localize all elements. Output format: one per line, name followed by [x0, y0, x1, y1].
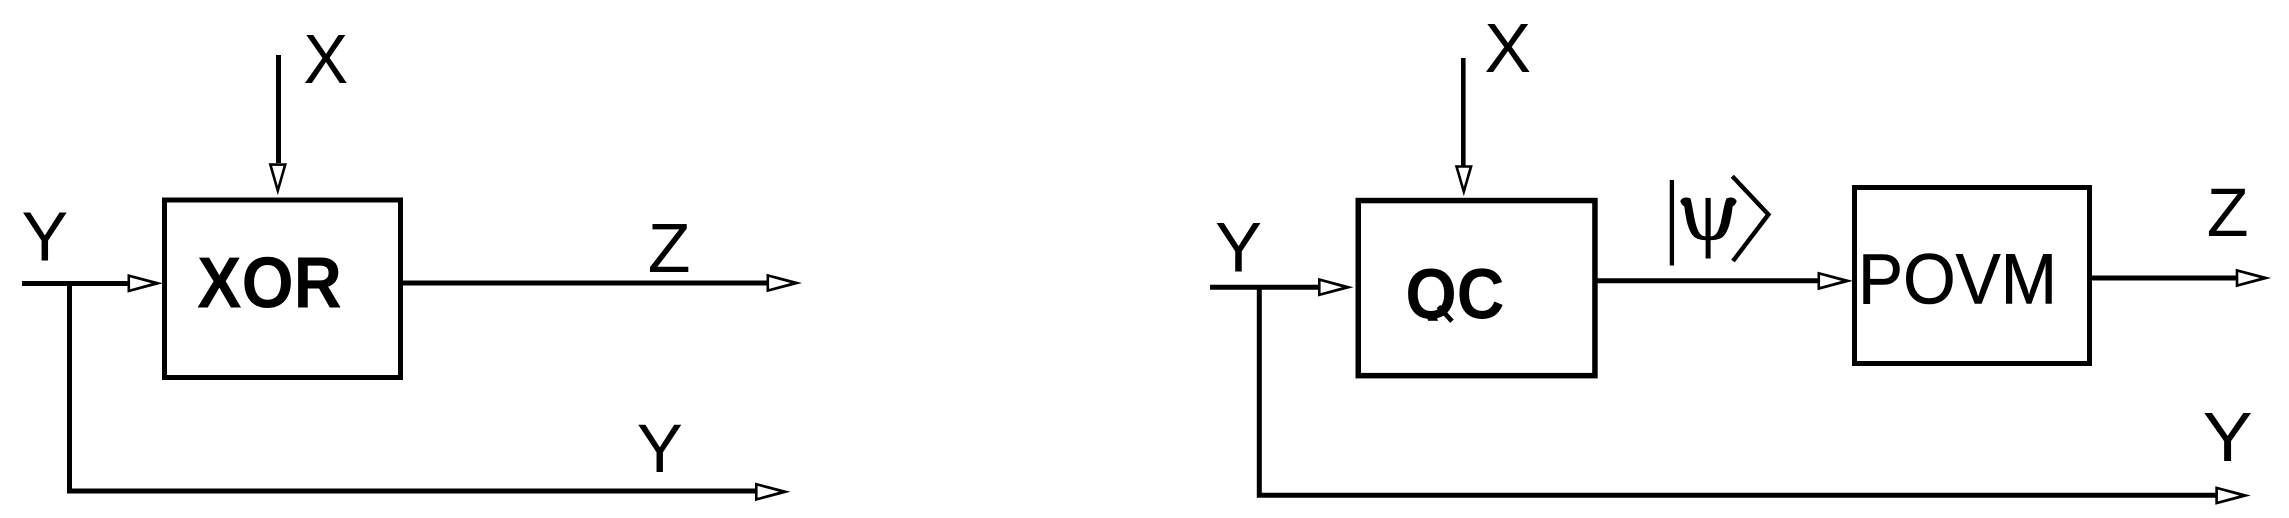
- arrowhead: Z output (left diagram): [767, 274, 803, 293]
- wire: quantum state |psi> from QC to POVM: [1595, 278, 1820, 283]
- wire: X input vertical (left diagram): [276, 55, 281, 163]
- label ket angle bracket of |psi>: [1732, 176, 1768, 261]
- wire: Y branch elbow (right diagram, down then right): [1259, 287, 2216, 495]
- svg-text:X: X: [304, 20, 349, 98]
- arrowhead: Z output (right diagram): [2236, 269, 2272, 288]
- arrowhead: |psi> into POVM box: [1818, 272, 1854, 291]
- svg-text:Z: Z: [2207, 174, 2249, 251]
- svg-text:Y: Y: [637, 410, 683, 487]
- label psi glyph of |psi> (curly-armed): [1680, 197, 1736, 258]
- box: POVM block (measurement): [1855, 188, 2090, 364]
- wire: Z output horizontal (right diagram): [2089, 276, 2236, 281]
- svg-text:Z: Z: [648, 209, 691, 287]
- text QC tail trim: [1425, 321, 1477, 338]
- wire: Y input horizontal (right diagram): [1210, 285, 1319, 290]
- svg-text:Y: Y: [2203, 398, 2253, 476]
- svg-text:POVM: POVM: [1858, 241, 2057, 320]
- arrowhead: Y bypass output (left diagram): [755, 483, 791, 502]
- wire: Y branch elbow (left diagram, down then right): [70, 284, 757, 492]
- arrowhead: X into XOR box (open, pointing down): [269, 163, 287, 195]
- arrowhead: Y into QC box (open, pointing right): [1318, 278, 1354, 297]
- wire: Z output horizontal (left diagram): [400, 281, 767, 286]
- label ket bar | of |psi>: [1670, 180, 1674, 266]
- wire: X input vertical (right diagram): [1461, 58, 1466, 166]
- text QC custom Q tail: [1439, 307, 1453, 322]
- arrowhead: X into QC box (open, pointing down): [1455, 165, 1473, 196]
- svg-text:Y: Y: [22, 198, 69, 276]
- wire: Y input horizontal (left diagram): [22, 281, 129, 286]
- arrowhead: Y into XOR box (open, pointing right): [128, 274, 164, 293]
- box: QC block (quantum channel): [1358, 201, 1595, 376]
- box: XOR block: [165, 200, 401, 378]
- svg-text:Y: Y: [1215, 208, 1262, 287]
- arrowhead: Y bypass output (right diagram): [2215, 486, 2251, 505]
- svg-text:X: X: [1484, 9, 1531, 87]
- svg-text:XOR: XOR: [197, 244, 342, 324]
